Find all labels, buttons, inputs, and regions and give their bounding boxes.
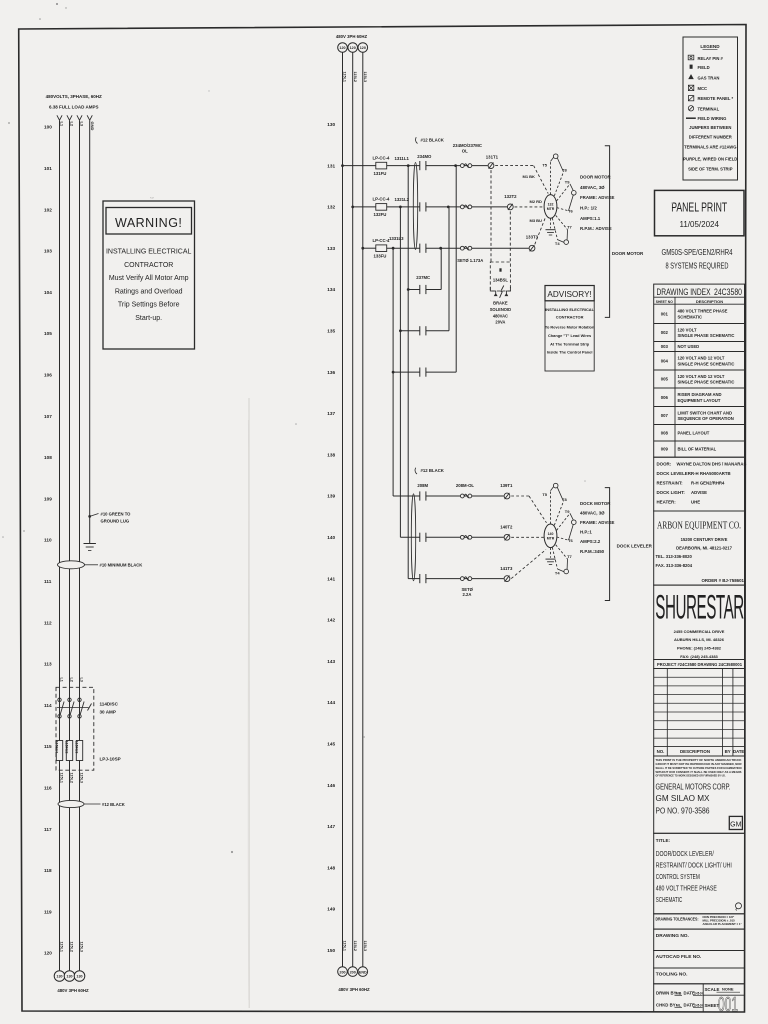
- svg-text:110: 110: [44, 538, 52, 543]
- svg-text:AUBURN HILLS, MI. 48326: AUBURN HILLS, MI. 48326: [674, 637, 725, 642]
- svg-text:120 VOLT AND 12 VOLT: 120 VOLT AND 12 VOLT: [678, 374, 725, 379]
- svg-text:GROUND LUG: GROUND LUG: [101, 519, 130, 524]
- svg-text:GM50S-SPE/GEN2/RHR4: GM50S-SPE/GEN2/RHR4: [662, 247, 733, 257]
- svg-text:237MC: 237MC: [416, 275, 430, 280]
- svg-text:T9: T9: [565, 179, 570, 184]
- svg-text:118: 118: [44, 868, 52, 873]
- svg-text:8 SYSTEMS REQUIRED: 8 SYSTEMS REQUIRED: [666, 260, 729, 270]
- svg-text:SIDE OF TERM. STRIP: SIDE OF TERM. STRIP: [688, 166, 733, 171]
- svg-text:LIMIT SWITCH CHART AND: LIMIT SWITCH CHART AND: [678, 410, 733, 415]
- svg-text:DATE: DATE: [733, 749, 744, 754]
- svg-text:130: 130: [327, 122, 335, 127]
- svg-text:R.P.M.: ADVISE: R.P.M.: ADVISE: [580, 226, 612, 231]
- svg-text:T6: T6: [568, 538, 573, 543]
- svg-text:20VA: 20VA: [495, 320, 505, 325]
- svg-text:120: 120: [360, 46, 366, 50]
- svg-text:PURPLE, WIRED ON FIELD: PURPLE, WIRED ON FIELD: [683, 156, 737, 161]
- svg-text:141T3: 141T3: [500, 566, 513, 571]
- svg-text:FIELD WIRING: FIELD WIRING: [698, 116, 727, 121]
- svg-text:BILL OF MATERIAL: BILL OF MATERIAL: [678, 447, 717, 452]
- svg-text:SCHEMATIC: SCHEMATIC: [678, 315, 703, 320]
- svg-text:L2: L2: [70, 122, 75, 127]
- svg-text:480VAC, 3Ø: 480VAC, 3Ø: [580, 185, 605, 190]
- svg-text:116: 116: [44, 786, 52, 791]
- svg-text:CONTRACTOR: CONTRACTOR: [556, 314, 584, 319]
- svg-text:11-05-24: 11-05-24: [694, 1003, 703, 1007]
- svg-text:130: 130: [66, 975, 72, 979]
- svg-text:LP-CC-4: LP-CC-4: [373, 238, 391, 243]
- svg-text:143: 143: [327, 659, 335, 664]
- svg-text:RESTRAINT/ DOCK LIGHT/ UHI: RESTRAINT/ DOCK LIGHT/ UHI: [656, 860, 732, 869]
- svg-text:GND: GND: [90, 122, 95, 131]
- svg-text:END: END: [359, 970, 367, 974]
- svg-text:MB: MB: [676, 991, 682, 995]
- svg-text:111: 111: [44, 579, 52, 584]
- svg-text:At The Terminal Strip: At The Terminal Strip: [550, 341, 590, 346]
- svg-text:ADVISE: ADVISE: [691, 490, 707, 495]
- svg-text:L3: L3: [80, 678, 84, 682]
- svg-text:140: 140: [327, 535, 335, 540]
- svg-text:BRAKE: BRAKE: [493, 301, 508, 306]
- svg-text:TOOLING NO.: TOOLING NO.: [656, 972, 688, 978]
- svg-text:133: 133: [327, 246, 335, 251]
- svg-text:WAYNE DALTON DHS / MANARAS: WAYNE DALTON DHS / MANARAS: [677, 461, 747, 466]
- svg-text:T5: T5: [542, 492, 547, 497]
- svg-text:113: 113: [44, 662, 52, 667]
- svg-text:GAS TRAN: GAS TRAN: [698, 76, 720, 81]
- svg-text:GENERAL MOTORS CORP.: GENERAL MOTORS CORP.: [656, 782, 731, 791]
- svg-text:RELAY PIN #: RELAY PIN #: [698, 56, 724, 61]
- svg-text:150: 150: [327, 948, 335, 953]
- svg-text:SHURESTAR: SHURESTAR: [655, 589, 744, 627]
- svg-text:UHE: UHE: [691, 499, 700, 504]
- svg-text:480V 3PH 60HZ: 480V 3PH 60HZ: [338, 987, 370, 992]
- svg-text:138: 138: [327, 452, 335, 457]
- svg-text:LEGEND: LEGEND: [700, 44, 720, 49]
- svg-text:LP-CC-4: LP-CC-4: [373, 155, 391, 160]
- svg-text:L3: L3: [80, 122, 85, 127]
- svg-text:115L2: 115L2: [70, 773, 74, 784]
- svg-text:NOT USED: NOT USED: [678, 344, 700, 349]
- svg-text:T8: T8: [562, 168, 567, 173]
- svg-text:PHONE: (248) 245-4382: PHONE: (248) 245-4382: [677, 646, 722, 651]
- svg-text:006: 006: [661, 395, 669, 400]
- svg-text:480VAC, 3Ø: 480VAC, 3Ø: [580, 510, 605, 515]
- svg-text:131T1: 131T1: [486, 155, 499, 160]
- svg-text:Ratings and Overload: Ratings and Overload: [115, 288, 183, 295]
- svg-text:#10 MINIMUM BLACK: #10 MINIMUM BLACK: [100, 563, 143, 568]
- svg-text:PANEL PRINT: PANEL PRINT: [671, 200, 727, 215]
- svg-text:104: 104: [44, 290, 52, 295]
- svg-text:117: 117: [44, 827, 52, 832]
- svg-text:SETØ 1.173A: SETØ 1.173A: [457, 258, 483, 263]
- svg-text:115L3: 115L3: [80, 773, 84, 784]
- svg-text:480V 3PH 60HZ: 480V 3PH 60HZ: [336, 34, 368, 39]
- svg-text:SOLENOID: SOLENOID: [490, 307, 511, 312]
- svg-text:DOOR MOTOR: DOOR MOTOR: [580, 174, 611, 179]
- svg-text:115FU3: 115FU3: [75, 741, 79, 754]
- svg-text:1331L3: 1331L3: [389, 236, 404, 241]
- svg-text:R-H GEN2/RHR4: R-H GEN2/RHR4: [691, 480, 725, 485]
- svg-text:FAX: (248) 245-4383: FAX: (248) 245-4383: [680, 654, 718, 659]
- svg-text:#12 BLACK: #12 BLACK: [102, 802, 125, 807]
- svg-text:144: 144: [327, 700, 335, 705]
- svg-text:INSTALLING ELECTRICAL: INSTALLING ELECTRICAL: [545, 307, 594, 312]
- svg-text:009: 009: [661, 447, 669, 452]
- svg-text:480VOLTS, 3PHASE, 60HZ: 480VOLTS, 3PHASE, 60HZ: [46, 94, 102, 99]
- svg-text:FIELD: FIELD: [698, 65, 710, 70]
- svg-text:115FU2: 115FU2: [65, 741, 69, 754]
- svg-text:30 AMP: 30 AMP: [100, 710, 116, 715]
- svg-text:DOCK LIGHT:: DOCK LIGHT:: [657, 490, 686, 495]
- svg-text:234MO: 234MO: [417, 154, 432, 159]
- svg-text:15200 CENTURY DRIVE: 15200 CENTURY DRIVE: [681, 537, 728, 542]
- svg-text:134: 134: [327, 287, 335, 292]
- svg-text:T8: T8: [562, 497, 567, 502]
- svg-text:M2 RD: M2 RD: [530, 199, 543, 204]
- svg-text:TEL. 313-336-8020: TEL. 313-336-8020: [656, 554, 693, 559]
- svg-text:120 VOLT: 120 VOLT: [678, 327, 697, 332]
- svg-text:L1: L1: [60, 678, 64, 682]
- svg-text:DOOR:: DOOR:: [657, 461, 672, 466]
- svg-text:132T2: 132T2: [504, 194, 517, 199]
- svg-text:DOOR/DOCK LEVELER/: DOOR/DOCK LEVELER/: [656, 849, 714, 858]
- svg-text:146: 146: [327, 783, 335, 788]
- svg-text:Start-up.: Start-up.: [135, 315, 162, 322]
- svg-text:200: 200: [350, 970, 356, 974]
- svg-text:LP-CC-4: LP-CC-4: [373, 197, 391, 202]
- svg-text:005: 005: [661, 377, 669, 382]
- svg-text:109: 109: [44, 496, 52, 501]
- svg-text:148: 148: [327, 865, 335, 870]
- svg-text:ADVISORY!: ADVISORY!: [547, 290, 591, 299]
- svg-text:H.P.:1: H.P.:1: [580, 530, 592, 535]
- svg-text:130: 130: [56, 975, 62, 979]
- svg-text:149: 149: [327, 907, 335, 912]
- svg-text:H.P.: 1/2: H.P.: 1/2: [580, 205, 597, 210]
- svg-text:RISER DIAGRAM AND: RISER DIAGRAM AND: [678, 392, 722, 397]
- svg-text:002: 002: [661, 330, 669, 335]
- svg-text:480VAC: 480VAC: [493, 313, 508, 318]
- svg-text:MCC: MCC: [698, 86, 708, 91]
- svg-text:Trip Settings Before: Trip Settings Before: [118, 302, 180, 309]
- svg-text:135: 135: [327, 329, 335, 334]
- svg-text:T5: T5: [542, 162, 547, 167]
- svg-text:115L2: 115L2: [353, 941, 357, 952]
- svg-text:FAX. 313-336-8204: FAX. 313-336-8204: [656, 563, 693, 568]
- svg-text:112: 112: [44, 620, 52, 625]
- svg-text:M3 BU: M3 BU: [530, 218, 543, 223]
- svg-text:208M-OL: 208M-OL: [456, 483, 475, 488]
- svg-text:008: 008: [661, 430, 669, 435]
- svg-text:137: 137: [327, 411, 335, 416]
- svg-text:DOCK LEVELER: DOCK LEVELER: [617, 543, 653, 548]
- svg-text:NO.: NO.: [657, 749, 665, 754]
- svg-text:TITLE:: TITLE:: [656, 838, 671, 843]
- svg-text:WARNING!: WARNING!: [115, 216, 182, 230]
- svg-text:11/05/2024: 11/05/2024: [679, 220, 719, 229]
- svg-text:24C3580: 24C3580: [714, 287, 742, 297]
- svg-text:TERMINALS ARE #12AWG: TERMINALS ARE #12AWG: [684, 145, 736, 150]
- svg-text:115L2: 115L2: [70, 942, 74, 953]
- svg-text:MTR: MTR: [547, 536, 555, 540]
- svg-text:115L2: 115L2: [353, 72, 357, 83]
- svg-text:T4: T4: [555, 241, 560, 246]
- svg-text:T7: T7: [567, 554, 572, 559]
- svg-text:M1 BK: M1 BK: [523, 174, 536, 179]
- svg-text:SINGLE PHASE SCHEMATIC: SINGLE PHASE SCHEMATIC: [678, 333, 735, 338]
- svg-text:DOOR MOTOR: DOOR MOTOR: [612, 251, 644, 256]
- svg-text:T4: T4: [555, 570, 560, 575]
- svg-text:REMOTE PANEL *: REMOTE PANEL *: [698, 96, 734, 101]
- svg-text:CONTROL SYSTEM: CONTROL SYSTEM: [656, 872, 700, 881]
- svg-text:SCHEMATIC: SCHEMATIC: [656, 895, 683, 904]
- svg-text:Inside The Control Panel: Inside The Control Panel: [547, 350, 593, 355]
- svg-text:11-05-24: 11-05-24: [694, 991, 703, 995]
- svg-text:#12 BLACK: #12 BLACK: [421, 468, 445, 473]
- svg-text:136: 136: [327, 370, 335, 375]
- svg-text:Must Verify All Motor Amp: Must Verify All Motor Amp: [109, 275, 189, 282]
- svg-text:480 VOLT THREE PHASE: 480 VOLT THREE PHASE: [678, 309, 728, 314]
- svg-text:L2: L2: [70, 678, 74, 682]
- svg-text:ML: ML: [676, 1003, 682, 1007]
- svg-text:PANEL LAYOUT: PANEL LAYOUT: [678, 430, 710, 435]
- svg-text:001: 001: [718, 993, 738, 1016]
- svg-text:208M: 208M: [417, 483, 428, 488]
- svg-text:132: 132: [327, 205, 335, 210]
- svg-text:131FU: 131FU: [374, 171, 387, 176]
- svg-text:T7: T7: [567, 224, 572, 229]
- svg-text:DRAWING NO.: DRAWING NO.: [656, 933, 689, 939]
- svg-text:DOCK LEVELER:: DOCK LEVELER:: [657, 471, 693, 476]
- svg-text:001: 001: [661, 312, 669, 317]
- svg-text:100: 100: [44, 125, 52, 130]
- svg-text:139: 139: [327, 494, 335, 499]
- svg-text:INSTALLING ELECTRICAL: INSTALLING ELECTRICAL: [106, 249, 192, 256]
- svg-text:DOCK MOTOR: DOCK MOTOR: [580, 501, 611, 506]
- svg-text:108: 108: [44, 455, 52, 460]
- svg-text:120: 120: [44, 951, 52, 956]
- svg-text:R.P.M.:3450: R.P.M.:3450: [580, 549, 605, 554]
- svg-text:JUMPERS BETWEEN: JUMPERS BETWEEN: [689, 125, 731, 130]
- svg-text:115L3: 115L3: [363, 72, 367, 83]
- svg-text:140T2: 140T2: [500, 525, 513, 530]
- svg-text:140: 140: [548, 532, 554, 536]
- svg-text:L1: L1: [60, 122, 65, 127]
- svg-text:007: 007: [661, 413, 669, 418]
- svg-text:R-H RHA5000ARTB: R-H RHA5000ARTB: [691, 471, 731, 476]
- svg-text:SCALE: SCALE: [705, 987, 720, 992]
- svg-text:115L1: 115L1: [60, 773, 64, 784]
- svg-text:120 VOLT AND 12 VOLT: 120 VOLT AND 12 VOLT: [678, 356, 725, 361]
- svg-text:480 VOLT THREE PHASE: 480 VOLT THREE PHASE: [656, 883, 717, 892]
- svg-text:AUTOCAD FILE NO.: AUTOCAD FILE NO.: [656, 954, 701, 960]
- svg-text:EQUIPMENT LAYOUT: EQUIPMENT LAYOUT: [678, 398, 721, 403]
- svg-text:1321L2: 1321L2: [395, 197, 410, 202]
- svg-text:142: 142: [327, 618, 335, 623]
- svg-text:115L1: 115L1: [343, 941, 347, 952]
- svg-text:004: 004: [661, 358, 669, 363]
- svg-text:2455 COMMERCIAL DRIVE: 2455 COMMERCIAL DRIVE: [674, 629, 725, 634]
- svg-text:105: 105: [44, 331, 52, 336]
- svg-text:115L3: 115L3: [80, 942, 84, 953]
- svg-text:ORDER # BJ-758601: ORDER # BJ-758601: [702, 578, 745, 583]
- svg-text:115L3: 115L3: [363, 941, 367, 952]
- svg-text:DRAWING INDEX: DRAWING INDEX: [657, 287, 711, 297]
- svg-text:DESCRIPTION: DESCRIPTION: [680, 749, 710, 754]
- svg-text:DIFFERENT NUMBER: DIFFERENT NUMBER: [689, 135, 732, 140]
- svg-text:CHKD BY: CHKD BY: [656, 1002, 676, 1007]
- svg-text:AMPS:1.1: AMPS:1.1: [580, 216, 601, 221]
- svg-text:107: 107: [44, 414, 52, 419]
- svg-text:6.38 FULL LOAD AMPS: 6.38 FULL LOAD AMPS: [49, 105, 99, 110]
- svg-text:GM SILAO MX: GM SILAO MX: [656, 794, 711, 803]
- svg-text:PROJECT #24C3580 DRAWING 24C3: PROJECT #24C3580 DRAWING 24C3580001: [657, 662, 742, 667]
- svg-text:·:·: ·:·: [150, 195, 154, 200]
- svg-text:NONE: NONE: [722, 987, 734, 992]
- svg-text:LPJ-10SP: LPJ-10SP: [100, 757, 121, 762]
- svg-text:OF REFERENCE TO WORK DESIGNED: OF REFERENCE TO WORK DESIGNED OR FURNISH…: [656, 774, 726, 778]
- svg-text:139T1: 139T1: [500, 483, 513, 488]
- svg-text:SINGLE PHASE SCHEMATIC: SINGLE PHASE SCHEMATIC: [678, 361, 735, 366]
- svg-text:MTR: MTR: [547, 207, 555, 211]
- svg-text:RESTRAINT:: RESTRAINT:: [657, 480, 684, 485]
- svg-text:T9: T9: [565, 509, 570, 514]
- svg-text:141: 141: [327, 576, 335, 581]
- svg-text:SEQUENCE OF OPERATION: SEQUENCE OF OPERATION: [678, 416, 734, 421]
- svg-text:103: 103: [44, 249, 52, 254]
- svg-text:114DISC: 114DISC: [100, 702, 119, 707]
- svg-text:2.2A: 2.2A: [463, 592, 472, 597]
- svg-text:SINGLE PHASE SCHEMATIC: SINGLE PHASE SCHEMATIC: [678, 380, 735, 385]
- svg-text:115L1: 115L1: [343, 72, 347, 83]
- svg-text:115FU1: 115FU1: [55, 741, 59, 754]
- svg-text:120: 120: [339, 46, 345, 50]
- svg-text:HEATER:: HEATER:: [657, 499, 677, 504]
- svg-text:#12 BLACK: #12 BLACK: [421, 137, 445, 142]
- svg-text:145: 145: [327, 742, 335, 747]
- svg-text:200: 200: [339, 970, 345, 974]
- svg-text:120: 120: [350, 46, 356, 50]
- svg-text:GM: GM: [730, 821, 741, 828]
- svg-text:DESCRIPTION: DESCRIPTION: [696, 299, 723, 304]
- svg-text:DRWN BY: DRWN BY: [656, 990, 677, 995]
- svg-text:1311L1: 1311L1: [395, 156, 410, 161]
- svg-text:106: 106: [44, 373, 52, 378]
- svg-text:115: 115: [44, 744, 52, 749]
- svg-text:101: 101: [44, 166, 52, 171]
- svg-text:BY: BY: [725, 749, 731, 754]
- svg-text:132: 132: [548, 203, 554, 207]
- svg-text:DRAWING TOLERANCES:: DRAWING TOLERANCES:: [656, 917, 699, 922]
- svg-text:147: 147: [327, 824, 335, 829]
- svg-text:131: 131: [327, 163, 335, 168]
- svg-text:CONTRACTOR: CONTRACTOR: [124, 262, 173, 269]
- svg-text:130: 130: [76, 975, 82, 979]
- svg-text:TERMINAL: TERMINAL: [698, 106, 720, 111]
- svg-text:To Reverse Motor Rotation: To Reverse Motor Rotation: [545, 325, 595, 330]
- svg-text:234MO/237MC: 234MO/237MC: [453, 143, 482, 148]
- svg-text:115L1: 115L1: [60, 942, 64, 953]
- svg-text:114: 114: [44, 703, 52, 708]
- svg-text:ARBON EQUIPMENT CO.: ARBON EQUIPMENT CO.: [657, 520, 741, 532]
- svg-text:T6: T6: [568, 209, 573, 214]
- svg-text:480V 3PH 60HZ: 480V 3PH 60HZ: [57, 988, 89, 993]
- svg-text:#10 GREEN TO: #10 GREEN TO: [101, 512, 132, 517]
- svg-text:SHEET NO: SHEET NO: [656, 299, 673, 304]
- svg-text:PO NO. 970-3586: PO NO. 970-3586: [656, 807, 710, 816]
- svg-text:ANGULAR PLACEMENT ± 1°: ANGULAR PLACEMENT ± 1°: [703, 922, 743, 926]
- svg-text:102: 102: [44, 207, 52, 212]
- svg-text:Change "T" Lead Wires: Change "T" Lead Wires: [548, 333, 591, 338]
- svg-text:OL: OL: [462, 149, 468, 154]
- svg-text:119: 119: [44, 909, 52, 914]
- svg-text:003: 003: [661, 344, 669, 349]
- svg-text:133FU: 133FU: [374, 254, 387, 259]
- svg-text:132FU: 132FU: [374, 212, 387, 217]
- svg-text:AMPS:2.2: AMPS:2.2: [580, 539, 601, 544]
- svg-text:DEARBORN, MI. 48121-0217: DEARBORN, MI. 48121-0217: [676, 546, 733, 551]
- svg-text:134BSL: 134BSL: [493, 278, 509, 283]
